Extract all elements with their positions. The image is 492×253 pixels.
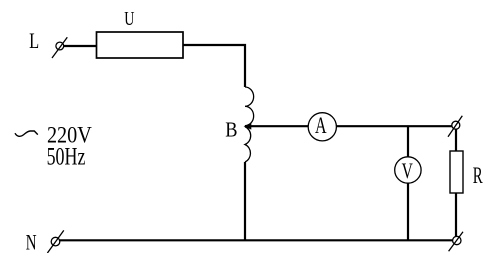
terminal N: [47, 230, 63, 253]
svg-text:V: V: [402, 158, 413, 183]
terminal L: [52, 37, 67, 58]
wire ammeter to right terminal: [336, 125, 452, 127]
svg-text:N: N: [26, 230, 37, 253]
wire voltmeter to bottom: [407, 183, 409, 240]
wire terminal to resistor R: [455, 130, 457, 152]
wire bottom rail: [60, 239, 453, 241]
wire wiper to ammeter: [249, 125, 308, 127]
resistor U (box): [97, 32, 184, 58]
wire coil bottom lead: [244, 162, 246, 240]
wire resistor to bottom terminal: [455, 193, 457, 236]
wire U to coil top: [183, 45, 245, 87]
voltmeter V: [395, 157, 421, 183]
terminal top-right: [448, 116, 462, 137]
wire L to U: [64, 45, 97, 47]
autotransformer B (coil): [245, 87, 254, 162]
AC source symbol: [15, 131, 38, 136]
resistor R: [450, 151, 463, 193]
svg-text:50Hz: 50Hz: [47, 143, 86, 170]
svg-text:R: R: [473, 162, 483, 188]
wiper arrow on B: [244, 123, 252, 130]
wire node to voltmeter: [407, 126, 409, 157]
terminal bottom-right: [449, 232, 463, 252]
svg-text:U: U: [124, 8, 134, 30]
svg-text:L: L: [29, 29, 39, 53]
svg-text:B: B: [225, 117, 237, 141]
ammeter A: [308, 113, 336, 141]
svg-text:A: A: [315, 113, 327, 138]
